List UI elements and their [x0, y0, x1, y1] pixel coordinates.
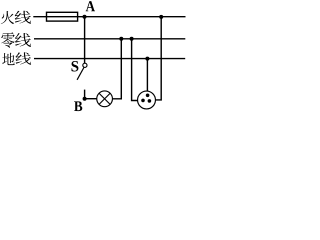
junction dot: earth bus / socket drop — [145, 57, 149, 61]
wire: node B to lamp — [85, 98, 97, 100]
switch S pivot circle — [83, 63, 87, 67]
wire: live bus drop to socket right terminal — [156, 17, 162, 100]
wire: lamp to neutral bus riser — [112, 39, 121, 99]
three-hole socket (circle with three dots) — [138, 91, 156, 109]
wire: earth bus drop to socket earth pin — [146, 59, 148, 92]
socket right hole — [148, 99, 152, 103]
wire: neutral (lingxian) bus L2 — [34, 38, 185, 40]
label: lingxian (neutral wire) — [1, 32, 31, 48]
socket left hole — [141, 99, 145, 103]
junction dot: neutral bus / socket riser — [130, 37, 134, 41]
junction dot: live bus / socket drop — [159, 15, 163, 19]
node B junction dot — [83, 97, 87, 101]
wire: neutral bus riser to socket left terminal — [132, 39, 138, 101]
wire: earth (dixian) bus L3 — [34, 58, 185, 60]
label: switch S — [71, 61, 78, 71]
label: node B — [74, 101, 82, 111]
fuse (rectangle) on live wire — [47, 12, 78, 21]
wire: node A down to switch S — [84, 17, 86, 63]
wire: live (huoxian) bus L1 — [33, 16, 185, 18]
node A junction dot — [83, 15, 87, 19]
socket earth hole — [146, 94, 150, 98]
wire: switch output down to node B — [84, 90, 86, 99]
label: huoxian (live wire) — [1, 11, 31, 24]
lamp (circle with X) — [97, 91, 113, 107]
junction dot: neutral bus / lamp riser — [119, 37, 123, 41]
label: node A — [86, 1, 95, 11]
switch S lever (open) — [77, 68, 84, 80]
label: dixian (earth wire) — [2, 52, 31, 65]
